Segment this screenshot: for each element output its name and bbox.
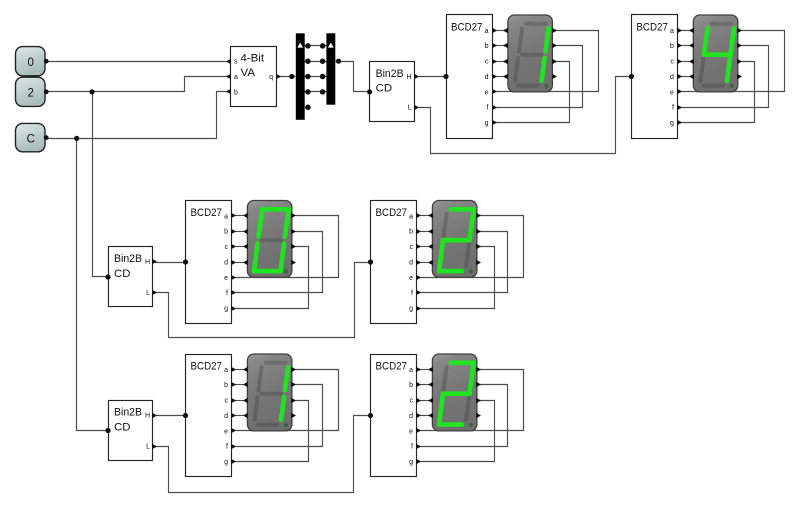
svg-text:g: g	[409, 306, 413, 313]
svg-text:BCD27: BCD27	[376, 207, 408, 219]
svg-text:CD: CD	[376, 83, 393, 95]
svg-text:4-Bit: 4-Bit	[241, 53, 265, 65]
svg-text:c: c	[225, 398, 229, 405]
svg-text:CD: CD	[114, 268, 131, 280]
svg-text:H: H	[145, 413, 150, 420]
svg-text:C: C	[27, 133, 35, 145]
svg-text:b: b	[224, 229, 228, 236]
svg-text:a: a	[670, 28, 674, 35]
svg-text:L: L	[146, 290, 150, 297]
svg-text:2: 2	[28, 88, 34, 100]
svg-text:VA: VA	[241, 67, 256, 79]
svg-text:e: e	[485, 89, 489, 96]
svg-text:BCD27: BCD27	[636, 21, 668, 33]
svg-text:g: g	[224, 306, 228, 313]
svg-text:b: b	[224, 382, 228, 389]
svg-text:a: a	[224, 213, 228, 220]
svg-text:Bin2B: Bin2B	[114, 253, 142, 265]
svg-text:L: L	[146, 443, 150, 450]
svg-text:d: d	[409, 413, 413, 420]
svg-text:a: a	[485, 28, 489, 35]
svg-text:d: d	[409, 259, 413, 266]
svg-text:b: b	[409, 382, 413, 389]
svg-text:d: d	[485, 74, 489, 81]
svg-text:f: f	[226, 290, 228, 297]
svg-text:d: d	[224, 259, 228, 266]
svg-text:c: c	[485, 59, 489, 66]
svg-text:q: q	[269, 74, 273, 81]
svg-text:c: c	[225, 244, 229, 251]
svg-text:e: e	[224, 275, 228, 282]
svg-text:BCD27: BCD27	[191, 207, 223, 219]
svg-text:L: L	[408, 105, 412, 112]
svg-text:e: e	[224, 428, 228, 435]
svg-text:f: f	[672, 105, 674, 112]
svg-text:a: a	[409, 213, 413, 220]
svg-text:Bin2B: Bin2B	[114, 407, 142, 419]
svg-text:g: g	[485, 120, 489, 127]
svg-text:BCD27: BCD27	[451, 21, 483, 33]
svg-text:e: e	[670, 89, 674, 96]
svg-text:b: b	[409, 229, 413, 236]
svg-text:H: H	[145, 259, 150, 266]
svg-text:b: b	[234, 89, 238, 96]
svg-text:f: f	[487, 105, 489, 112]
svg-text:f: f	[411, 444, 413, 451]
svg-text:g: g	[224, 459, 228, 466]
svg-text:CD: CD	[114, 421, 131, 433]
svg-text:s: s	[234, 59, 238, 66]
svg-text:f: f	[226, 444, 228, 451]
svg-text:e: e	[409, 428, 413, 435]
svg-text:g: g	[670, 120, 674, 127]
svg-text:c: c	[670, 59, 674, 66]
svg-text:a: a	[224, 367, 228, 374]
svg-text:c: c	[410, 398, 414, 405]
svg-text:b: b	[485, 43, 489, 50]
svg-text:c: c	[410, 244, 414, 251]
svg-text:0: 0	[28, 57, 34, 69]
svg-text:a: a	[234, 74, 238, 81]
svg-text:g: g	[409, 459, 413, 466]
svg-text:H: H	[407, 74, 412, 81]
svg-text:d: d	[224, 413, 228, 420]
svg-text:Bin2B: Bin2B	[376, 68, 404, 80]
svg-text:BCD27: BCD27	[376, 360, 408, 372]
svg-text:a: a	[409, 367, 413, 374]
svg-text:BCD27: BCD27	[191, 360, 223, 372]
svg-text:d: d	[670, 74, 674, 81]
svg-text:e: e	[409, 275, 413, 282]
svg-text:f: f	[411, 290, 413, 297]
svg-text:b: b	[670, 43, 674, 50]
